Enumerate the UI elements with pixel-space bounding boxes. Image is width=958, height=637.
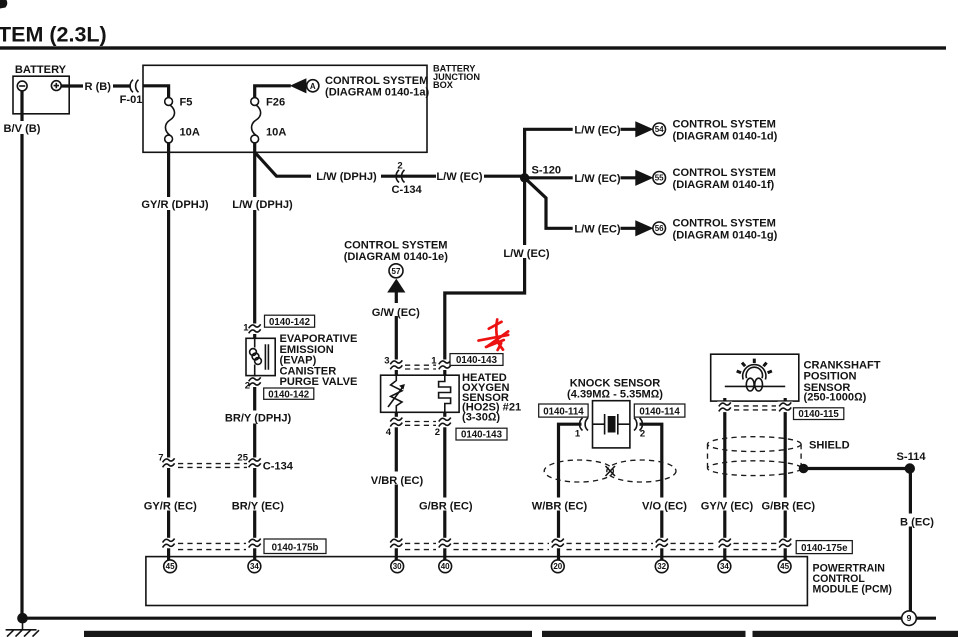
CKP coil: [746, 378, 754, 391]
svg-text:34: 34: [250, 562, 259, 571]
wire ground bus: [23, 617, 937, 620]
label BR/Y (EC): [226, 498, 289, 511]
svg-text:55: 55: [655, 174, 664, 183]
svg-text:0140-143: 0140-143: [456, 355, 498, 366]
svg-text:L/W (EC): L/W (EC): [574, 173, 621, 185]
svg-text:57: 57: [392, 267, 401, 276]
svg-text:54: 54: [655, 125, 664, 134]
svg-text:25: 25: [237, 453, 248, 464]
powertrain control module PCM box: [146, 557, 808, 606]
svg-text:0140-175b: 0140-175b: [272, 542, 319, 553]
wire battery negative B/V (B): [20, 91, 23, 619]
svg-text:L/W (EC): L/W (EC): [574, 124, 621, 136]
HO2S pin 2: [437, 417, 452, 428]
svg-text:S-120: S-120: [532, 165, 562, 177]
svg-text:F26: F26: [266, 97, 285, 109]
fuse F26 10A: [251, 98, 261, 143]
svg-text:(4.39MΩ - 5.35MΩ): (4.39MΩ - 5.35MΩ): [567, 389, 663, 401]
wire junction box feed to F5: [143, 86, 169, 98]
svg-text:GY/R (EC): GY/R (EC): [144, 500, 197, 512]
svg-text:R (B): R (B): [85, 81, 112, 93]
shield symbol: [708, 437, 802, 452]
battery positive terminal: [51, 81, 61, 91]
svg-text:2: 2: [397, 161, 402, 172]
svg-text:BOX: BOX: [433, 80, 454, 90]
svg-text:9: 9: [907, 613, 912, 623]
EVAP canister purge valve: [246, 338, 275, 375]
svg-text:G/W (EC): G/W (EC): [372, 307, 420, 319]
svg-text:10A: 10A: [266, 127, 286, 139]
svg-text:4: 4: [386, 427, 392, 438]
bottom page band: [84, 631, 532, 637]
node S-120: [520, 173, 529, 182]
label G/BR (EC) CKP: [758, 498, 820, 511]
PCM pin 45 right: [778, 560, 791, 573]
wire S-120 mid branch to 55: [527, 176, 636, 179]
label BR/Y (DPHJ): [225, 411, 291, 424]
svg-text:40: 40: [441, 562, 450, 571]
wire S-120 lower branch to 56: [525, 178, 636, 229]
svg-text:MODULE (PCM): MODULE (PCM): [813, 583, 892, 595]
wire S-120 down L/W (EC) to HO2S pin 1: [445, 181, 525, 376]
label G/BR (EC) HO2S: [415, 498, 477, 511]
HO2S pin 3: [389, 360, 404, 371]
svg-text:0140-142: 0140-142: [268, 389, 309, 400]
shield drain node: [799, 464, 809, 474]
svg-text:TEM (2.3L): TEM (2.3L): [0, 23, 107, 47]
battery negative terminal: [17, 81, 27, 91]
twisted pair ellipses: [544, 460, 613, 482]
PCM pin 34: [248, 560, 261, 573]
CKP reluctor gear icon: [737, 359, 772, 380]
battery junction box: [143, 65, 427, 152]
node ground junction: [17, 613, 28, 624]
svg-text:S-114: S-114: [897, 451, 927, 463]
svg-text:0140-114: 0140-114: [543, 406, 584, 417]
PCM pin 34 right: [718, 560, 731, 573]
svg-text:F5: F5: [180, 97, 193, 109]
label GY/R (EC): [139, 498, 202, 511]
svg-text:1: 1: [243, 323, 249, 334]
svg-text:V/O (EC): V/O (EC): [642, 500, 687, 512]
svg-text:10A: 10A: [180, 127, 200, 139]
wire G/W (EC) arrow to HO2S pin 3: [395, 292, 398, 376]
svg-text:BATTERY: BATTERY: [15, 64, 67, 76]
label box 0140-142 lower: [264, 388, 314, 399]
label L/W (EC) branch: [436, 170, 484, 183]
svg-text:G/BR (EC): G/BR (EC): [419, 500, 473, 512]
wire G/BR (EC) CKP right pin to PCM pin 45: [784, 398, 787, 560]
svg-text:0140-114: 0140-114: [639, 406, 680, 417]
page corner mark: [0, 0, 7, 9]
battery: [13, 76, 69, 114]
label GY/V (EC): [697, 498, 757, 511]
label box 0140-175e: [796, 541, 852, 554]
svg-text:SHIELD: SHIELD: [809, 440, 850, 452]
CKP pins: [717, 402, 732, 413]
node S-114: [905, 463, 915, 473]
label box 0140-115: [794, 408, 844, 420]
svg-text:L/W (EC): L/W (EC): [574, 223, 621, 235]
svg-text:L/W (DPHJ): L/W (DPHJ): [316, 171, 377, 183]
svg-text:G/BR (EC): G/BR (EC): [761, 500, 815, 512]
HO2S pin 4: [389, 417, 404, 428]
svg-text:56: 56: [655, 224, 664, 233]
label L/W (DPHJ): [229, 197, 296, 210]
svg-text:C-134: C-134: [392, 184, 423, 196]
connector F-01: [130, 80, 138, 93]
svg-text:(DIAGRAM 0140-1d): (DIAGRAM 0140-1d): [673, 131, 778, 143]
fuse F5 10A: [165, 98, 175, 143]
svg-text:W/BR (EC): W/BR (EC): [532, 500, 588, 512]
PCM pin 30: [391, 560, 404, 573]
EVAP pin 2: [247, 377, 262, 388]
svg-text:3: 3: [384, 356, 389, 367]
svg-text:BR/Y (DPHJ): BR/Y (DPHJ): [225, 413, 292, 425]
svg-text:BR/Y (EC): BR/Y (EC): [232, 500, 284, 512]
wire shield drain to S-114: [806, 467, 905, 470]
svg-text:V/BR (EC): V/BR (EC): [371, 475, 424, 487]
svg-text:45: 45: [780, 562, 789, 571]
svg-text:(250-1000Ω): (250-1000Ω): [804, 391, 867, 403]
svg-text:7: 7: [158, 453, 163, 464]
knock crystal element: [593, 423, 630, 425]
label B (EC): [895, 514, 940, 527]
label V/BR (EC): [369, 472, 425, 485]
svg-text:0140-115: 0140-115: [798, 409, 839, 420]
PCM connector row dashes: [178, 543, 246, 549]
svg-text:CONTROL SYSTEM: CONTROL SYSTEM: [344, 239, 447, 251]
wire S-120 up branch to 54: [525, 129, 636, 176]
svg-text:34: 34: [720, 562, 729, 571]
wire F26 top to diagram 0140-1a arrow: [255, 86, 291, 98]
svg-text:CONTROL SYSTEM: CONTROL SYSTEM: [673, 167, 776, 179]
svg-text:45: 45: [166, 562, 175, 571]
svg-text:B/V (B): B/V (B): [4, 123, 41, 135]
wire branch diagonal to C-134: [255, 152, 521, 176]
PCM pin 45: [164, 560, 177, 573]
PCM pin 40: [439, 560, 452, 573]
wire V/O (EC) knock pin 2 to PCM pin 32: [640, 424, 662, 560]
label V/O (EC): [638, 498, 692, 511]
wire L/W (DPHJ) F26 down to EVAP and BR/Y to PCM pin 34: [253, 143, 256, 560]
svg-text:C-134: C-134: [263, 460, 294, 472]
svg-text:2: 2: [245, 381, 250, 392]
label box 0140-175b: [264, 539, 326, 554]
wire W/BR (EC) knock pin 1 to PCM pin 20: [559, 424, 582, 560]
svg-text:2: 2: [435, 427, 440, 438]
wire B (EC) S-114 down to PCM pin 9: [909, 471, 912, 612]
svg-text:CONTROL SYSTEM: CONTROL SYSTEM: [673, 119, 776, 131]
wire battery positive R (B): [61, 84, 130, 87]
label B/V (B): [1, 121, 45, 134]
label box 0140-143 upper: [450, 354, 503, 366]
svg-text:20: 20: [553, 562, 562, 571]
wire GY/V (EC) CKP left pin to PCM pin 34: [723, 398, 726, 560]
wire GY/R (DPHJ)/(EC) F5 to PCM pin 45: [167, 143, 170, 560]
svg-text:2: 2: [640, 429, 645, 440]
svg-text:CRANKSHAFT: CRANKSHAFT: [804, 359, 881, 371]
svg-text:0140-143: 0140-143: [461, 430, 503, 441]
wire V/BR (EC) HO2S pin 4 to PCM pin 30: [395, 412, 398, 560]
PCM pin 20: [551, 560, 564, 573]
label G/W (EC): [369, 303, 423, 316]
svg-text:30: 30: [393, 562, 402, 571]
svg-text:(DIAGRAM 0140-1f): (DIAGRAM 0140-1f): [673, 179, 775, 191]
wire G/BR (EC) HO2S pin 2 to PCM pin 40: [443, 412, 446, 560]
svg-text:CONTROL SYSTEM: CONTROL SYSTEM: [673, 218, 776, 230]
svg-text:(DIAGRAM 0140-1a): (DIAGRAM 0140-1a): [325, 87, 429, 99]
svg-text:GY/V (EC): GY/V (EC): [701, 500, 754, 512]
label GY/R (DPHJ): [139, 197, 211, 210]
PCM pin 32: [655, 560, 668, 573]
svg-text:CONTROL SYSTEM: CONTROL SYSTEM: [325, 75, 428, 87]
PCM connector row wavys: [161, 538, 176, 549]
svg-text:PURGE VALVE: PURGE VALVE: [280, 376, 358, 388]
EVAP pin 1: [247, 324, 262, 335]
label box 0140-143 lower: [456, 428, 507, 440]
HO2S pin 1: [437, 360, 452, 371]
svg-text:(DIAGRAM 0140-1e): (DIAGRAM 0140-1e): [344, 251, 448, 263]
crankshaft position sensor: [711, 354, 799, 401]
svg-text:1: 1: [575, 429, 581, 440]
svg-text:(3-30Ω): (3-30Ω): [462, 412, 500, 424]
svg-text:KNOCK SENSOR: KNOCK SENSOR: [570, 377, 661, 389]
svg-text:0140-175e: 0140-175e: [801, 543, 848, 554]
arrow to control system A: [290, 78, 307, 93]
connector 2 C-134: [396, 170, 404, 183]
title rule: [0, 46, 946, 49]
svg-text:L/W (EC): L/W (EC): [436, 171, 483, 183]
svg-text:32: 32: [657, 562, 666, 571]
PCM pin 9 circle: [902, 611, 917, 626]
svg-text:POSITION: POSITION: [804, 371, 857, 383]
svg-text:B (EC): B (EC): [900, 517, 934, 529]
ground chassis symbol: [6, 618, 37, 630]
svg-text:L/W (EC): L/W (EC): [503, 248, 550, 260]
label L/W (EC) on down wire: [502, 245, 551, 258]
svg-text:0140-142: 0140-142: [269, 317, 310, 328]
heated oxygen sensor HO2S #21: [381, 375, 460, 412]
label box 0140-142 upper: [265, 315, 315, 327]
svg-text:L/W (DPHJ): L/W (DPHJ): [232, 199, 293, 211]
label W/BR (EC): [528, 498, 591, 511]
svg-text:F-01: F-01: [120, 94, 143, 106]
red asterisk mark: [479, 320, 509, 351]
connector C-134 row: [161, 458, 176, 469]
svg-text:GY/R (DPHJ): GY/R (DPHJ): [141, 199, 208, 211]
label L/W (DPHJ) branch: [311, 170, 381, 183]
svg-text:(DIAGRAM 0140-1g): (DIAGRAM 0140-1g): [673, 230, 778, 242]
svg-text:A: A: [310, 82, 316, 91]
